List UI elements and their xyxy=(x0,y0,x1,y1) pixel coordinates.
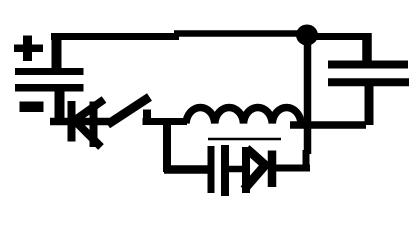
capacitor C1 bottom plate xyxy=(328,78,409,86)
node A (junction dot) xyxy=(296,25,318,46)
wire bottom branch left lead (vertical) xyxy=(163,124,171,172)
inductor L1 (4 humps) xyxy=(186,108,301,124)
wire top rail right segment xyxy=(174,30,310,37)
wire inductor right to capacitor branch (horizontal) xyxy=(290,121,366,129)
wire bottom branch left horizontal xyxy=(164,165,210,174)
diode D2 triangle (pointing right) xyxy=(244,149,269,190)
wire capacitor C1 bottom lead (vertical) xyxy=(365,82,374,125)
battery B1 minus label xyxy=(20,102,44,113)
wire battery negative lead (vertical) xyxy=(55,91,65,124)
capacitor C2 left plate xyxy=(208,146,215,193)
capacitor C2 right plate xyxy=(221,145,229,196)
switch S1 blade xyxy=(108,97,150,125)
battery B1 plus label xyxy=(14,36,43,62)
diode D2 anode bar xyxy=(242,147,250,193)
battery B1 top plate xyxy=(15,68,84,75)
diode D1 triangle (pointing left) xyxy=(75,100,104,148)
switch S1 right contact stub xyxy=(143,110,151,125)
wire capacitor C2 to diode D2 xyxy=(229,166,248,173)
wire battery positive lead (vertical) xyxy=(52,33,62,71)
wire lower junction corner (vertical) xyxy=(303,150,310,170)
wire top rail corner to capacitor C1 (vertical) xyxy=(362,33,372,64)
wire top rail left segment xyxy=(51,33,179,40)
wire battery to diode D1 xyxy=(50,118,109,126)
diode D1 cathode bar xyxy=(68,101,76,142)
wire switch to inductor xyxy=(143,118,188,125)
wire node to lower junction (vertical) xyxy=(304,40,312,154)
battery B1 bottom plate xyxy=(15,84,84,92)
inductor L1 core line (thin) xyxy=(208,138,281,141)
diode D2 cathode bar xyxy=(268,151,277,188)
capacitor C1 top plate xyxy=(328,61,408,69)
wire top rail node-to-corner segment xyxy=(305,33,370,40)
wire diode D2 to right lead xyxy=(274,165,310,172)
